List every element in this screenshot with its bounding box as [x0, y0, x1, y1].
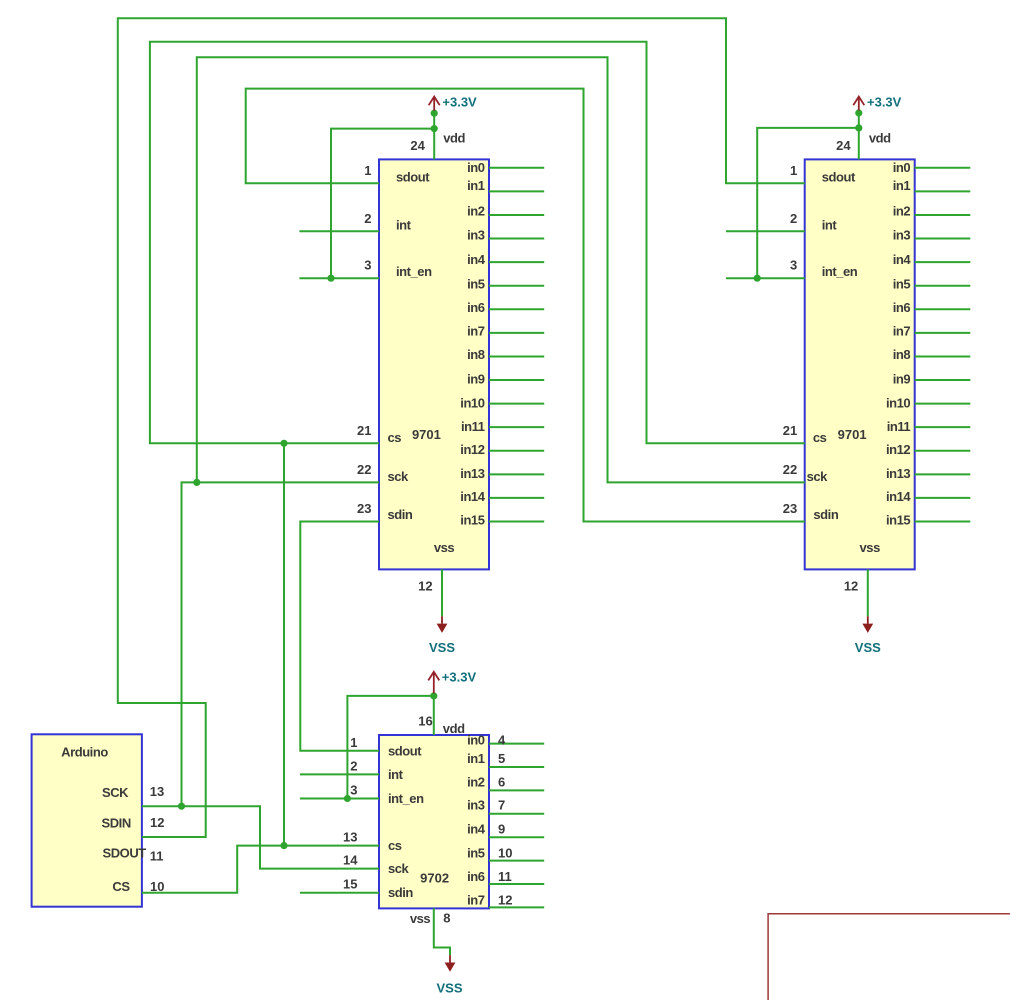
- wire U1 in8 stub: [489, 355, 544, 357]
- svg-text:9: 9: [498, 821, 505, 836]
- svg-text:in12: in12: [460, 442, 484, 457]
- wire U2 in3 stub: [915, 238, 971, 240]
- svg-text:int_en: int_en: [822, 264, 858, 279]
- svg-text:22: 22: [783, 462, 797, 477]
- svg-text:in4: in4: [893, 252, 912, 267]
- wire U1 in6 stub: [489, 308, 544, 310]
- svg-text:in4: in4: [467, 252, 486, 267]
- svg-text:in12: in12: [886, 442, 910, 457]
- svg-text:in14: in14: [460, 489, 485, 504]
- junction U1 +3.3V at power symbol: [431, 110, 438, 117]
- svg-text:int: int: [388, 767, 404, 782]
- svg-text:in9: in9: [467, 372, 485, 387]
- wire U2 vss pin12 down to VSS: [867, 569, 869, 616]
- svg-text:3: 3: [790, 258, 797, 273]
- wire U1 in2 stub: [489, 214, 544, 216]
- svg-text:in15: in15: [886, 513, 910, 528]
- wire U1 in4 stub: [489, 261, 544, 263]
- svg-text:vdd: vdd: [869, 131, 891, 146]
- wire U2 in8 stub: [915, 355, 971, 357]
- svg-text:11: 11: [150, 849, 164, 864]
- power VSS symbol below U3: [445, 955, 456, 972]
- wire U2 vdd pin24 to +3.3V: [858, 113, 860, 159]
- svg-text:in11: in11: [887, 419, 911, 434]
- svg-text:SCK: SCK: [102, 785, 129, 800]
- svg-text:+3.3V: +3.3V: [442, 95, 477, 110]
- wire U2 in6 stub: [915, 308, 971, 310]
- wire net SDIN: Arduino SDIN to U2 sdout (top outer loop): [118, 18, 805, 837]
- svg-text:1: 1: [350, 735, 357, 750]
- wire U3 in0 stub: [489, 743, 544, 745]
- junction U3 cs wire from vertical drop: [280, 842, 287, 849]
- svg-text:in1: in1: [893, 178, 911, 193]
- wire U1 in9 stub: [489, 379, 544, 381]
- svg-text:15: 15: [343, 877, 357, 892]
- svg-text:in7: in7: [467, 324, 485, 339]
- svg-text:vdd: vdd: [443, 721, 465, 736]
- wire U1 in12 stub: [489, 450, 544, 452]
- wire net SCK: U1 sck pin22 left then down to Arduino SCK row: [182, 482, 380, 806]
- wire U3 vdd pin16 to +3.3V: [433, 696, 435, 735]
- svg-text:16: 16: [418, 713, 432, 728]
- wire U2 in1 stub: [915, 190, 971, 192]
- power +3.3V symbol above U2: [853, 97, 864, 111]
- svg-text:cs: cs: [388, 430, 402, 445]
- wire net CS: U3 cs pin13 left then down to Arduino CS pin10: [142, 846, 379, 893]
- svg-text:13: 13: [343, 830, 357, 845]
- wire +3.3V feed to U3 int_en (from vdd junction down): [347, 696, 433, 799]
- svg-text:13: 13: [150, 784, 164, 799]
- svg-text:12: 12: [150, 815, 164, 830]
- svg-text:in8: in8: [893, 347, 911, 362]
- svg-text:CS: CS: [112, 879, 130, 894]
- svg-text:sdin: sdin: [388, 507, 413, 522]
- junction U2 +3.3V at power symbol: [855, 109, 862, 116]
- wire U2 in5 stub: [915, 285, 971, 287]
- svg-text:in0: in0: [467, 733, 485, 748]
- svg-text:2: 2: [350, 758, 357, 773]
- svg-text:in5: in5: [893, 277, 911, 292]
- svg-text:cs: cs: [813, 430, 827, 445]
- wire U3 in7 stub: [489, 906, 544, 908]
- svg-text:21: 21: [357, 423, 371, 438]
- svg-text:in3: in3: [467, 228, 485, 243]
- wire U2 in15 stub: [915, 521, 971, 523]
- svg-text:+3.3V: +3.3V: [442, 670, 477, 685]
- svg-text:cs: cs: [388, 838, 402, 853]
- wire net CS: vertical drop from U1 cs junction to U3 cs line: [283, 443, 285, 845]
- svg-text:sck: sck: [388, 469, 410, 484]
- svg-text:24: 24: [410, 138, 425, 153]
- svg-text:VSS: VSS: [855, 640, 881, 655]
- svg-text:in5: in5: [467, 277, 485, 292]
- svg-text:in2: in2: [467, 204, 485, 219]
- junction Arduino SCK wire: [178, 803, 185, 810]
- svg-text:2: 2: [790, 211, 797, 226]
- wire U2 in4 stub: [915, 261, 971, 263]
- svg-text:in6: in6: [467, 300, 485, 315]
- svg-text:in9: in9: [893, 372, 911, 387]
- svg-text:14: 14: [343, 853, 358, 868]
- svg-text:in3: in3: [893, 228, 911, 243]
- svg-text:SDIN: SDIN: [102, 816, 131, 831]
- svg-text:in1: in1: [467, 178, 485, 193]
- svg-text:vss: vss: [860, 540, 881, 555]
- junction U1 int_en wire: [327, 275, 334, 282]
- svg-text:in7: in7: [893, 324, 911, 339]
- svg-text:10: 10: [498, 846, 512, 861]
- junction U1 cs wire to vertical drop: [280, 440, 287, 447]
- svg-text:10: 10: [150, 879, 164, 894]
- svg-text:24: 24: [836, 138, 851, 153]
- wire U3 in4 stub: [489, 836, 544, 838]
- wire U3 in3 stub: [489, 813, 544, 815]
- power VSS symbol below U2: [862, 616, 873, 633]
- svg-text:22: 22: [357, 462, 371, 477]
- svg-text:in8: in8: [467, 347, 485, 362]
- svg-text:5: 5: [498, 751, 505, 766]
- wire U1 vdd pin24 to +3.3V: [433, 113, 435, 159]
- svg-text:VSS: VSS: [429, 640, 455, 655]
- svg-text:int: int: [396, 217, 412, 232]
- svg-text:sdout: sdout: [822, 169, 856, 184]
- wire net SDOUT1: U1 sdout pin1 up across top to U2 sdin pin23: [246, 89, 805, 522]
- wire net SDIN1: U1 sdin pin23 left, down to U3 sdout pin1: [300, 522, 379, 751]
- wire U1 in3 stub: [489, 238, 544, 240]
- junction SCK riser above U1 sck: [193, 479, 200, 486]
- wire U3 in1 stub: [489, 766, 544, 768]
- wire U1 vss pin12 down to VSS: [441, 569, 443, 616]
- wire net CS: U1 cs pin21 across top to U2 cs pin21: [150, 42, 805, 444]
- power VSS symbol below U1: [437, 616, 448, 633]
- wire U1 in15 stub: [489, 521, 544, 523]
- svg-text:SDOUT: SDOUT: [103, 846, 147, 861]
- op-amp U1 body (9701 left, 24-pin expander): [379, 159, 489, 569]
- svg-text:1: 1: [364, 163, 371, 178]
- svg-text:sdout: sdout: [388, 743, 422, 758]
- wire U1 in13 stub: [489, 473, 544, 475]
- wire U1 int_en pin3 stub: [299, 277, 379, 279]
- svg-text:in13: in13: [886, 466, 910, 481]
- wire U1 int pin2 stub: [299, 230, 379, 232]
- svg-text:3: 3: [364, 258, 371, 273]
- wire U3 vss pin8 down with jog to VSS: [434, 908, 450, 955]
- svg-text:in6: in6: [893, 300, 911, 315]
- svg-text:4: 4: [498, 733, 506, 748]
- svg-text:6: 6: [498, 775, 505, 790]
- svg-text:11: 11: [498, 869, 512, 884]
- svg-text:int_en: int_en: [396, 264, 432, 279]
- svg-text:23: 23: [783, 501, 797, 516]
- svg-text:in5: in5: [467, 846, 485, 861]
- wire U3 in2 stub: [489, 789, 544, 791]
- svg-text:in2: in2: [467, 775, 485, 790]
- svg-text:sck: sck: [807, 469, 829, 484]
- svg-text:9701: 9701: [412, 427, 441, 442]
- power +3.3V symbol above U1: [429, 97, 440, 111]
- svg-text:in6: in6: [467, 869, 485, 884]
- svg-text:in7: in7: [467, 893, 485, 908]
- svg-text:9702: 9702: [420, 870, 449, 885]
- svg-text:sdout: sdout: [396, 169, 430, 184]
- svg-text:in3: in3: [467, 798, 485, 813]
- svg-text:23: 23: [357, 501, 371, 516]
- wire U2 int_en pin3 stub: [726, 277, 805, 279]
- wire U3 in6 stub: [489, 883, 544, 885]
- svg-text:3: 3: [350, 783, 357, 798]
- wire U2 in11 stub: [915, 426, 971, 428]
- svg-text:vss: vss: [410, 911, 431, 926]
- junction U2 vdd / int_en feed: [855, 124, 862, 131]
- wire U1 in7 stub: [489, 332, 544, 334]
- wire U1 in10 stub: [489, 403, 544, 405]
- junction U3 int_en wire: [344, 795, 351, 802]
- svg-text:12: 12: [498, 893, 512, 908]
- wire U2 in7 stub: [915, 332, 971, 334]
- svg-text:int: int: [822, 217, 838, 232]
- svg-text:12: 12: [844, 579, 858, 594]
- junction U1 vdd / int_en feed: [431, 125, 438, 132]
- svg-text:in10: in10: [460, 396, 484, 411]
- junction U3 +3.3V at power symbol: [430, 692, 437, 699]
- wire U1 in0 stub: [489, 167, 544, 169]
- wire U2 in14 stub: [915, 497, 971, 499]
- wire +3.3V feed to U1 int_en (from vdd junction down): [331, 129, 434, 279]
- svg-text:in14: in14: [886, 489, 911, 504]
- wire U2 in12 stub: [915, 450, 971, 452]
- svg-text:in15: in15: [460, 513, 484, 528]
- wire U1 in11 stub: [489, 426, 544, 428]
- wire U2 int pin2 stub: [726, 230, 805, 232]
- svg-text:VSS: VSS: [436, 980, 462, 995]
- svg-text:2: 2: [364, 211, 371, 226]
- svg-text:in11: in11: [461, 419, 485, 434]
- junction U2 int_en wire: [754, 275, 761, 282]
- wire U2 in10 stub: [915, 403, 971, 405]
- svg-text:int_en: int_en: [388, 791, 424, 806]
- wire U3 in5 stub: [489, 860, 544, 862]
- wire U1 in1 stub: [489, 190, 544, 192]
- wire U1 in14 stub: [489, 497, 544, 499]
- svg-text:21: 21: [783, 423, 797, 438]
- svg-text:12: 12: [418, 579, 432, 594]
- svg-text:in1: in1: [467, 751, 485, 766]
- svg-text:in2: in2: [893, 204, 911, 219]
- wire net SCK: junction above U1 sck across top to U2 sck pin22: [197, 57, 805, 482]
- wire net SCK: Arduino SCK pin13 right then down to U3 sck pin14: [142, 806, 379, 868]
- wire U3 int pin2 stub: [300, 773, 379, 775]
- wire U2 in2 stub: [915, 214, 971, 216]
- wire U3 int_en pin3 stub: [300, 798, 379, 800]
- svg-text:7: 7: [498, 798, 505, 813]
- svg-text:Arduino: Arduino: [61, 745, 108, 760]
- svg-text:sdin: sdin: [388, 885, 413, 900]
- svg-text:in4: in4: [467, 821, 486, 836]
- wire U2 in13 stub: [915, 473, 971, 475]
- svg-text:vss: vss: [434, 540, 455, 555]
- wire U2 in9 stub: [915, 379, 971, 381]
- Arduino module body: [32, 734, 142, 906]
- op-amp U3 body (9702 16-pin expander): [379, 735, 489, 908]
- svg-text:+3.3V: +3.3V: [867, 95, 902, 110]
- svg-text:9701: 9701: [838, 427, 867, 442]
- svg-text:in10: in10: [886, 396, 910, 411]
- wire U2 in0 stub: [915, 167, 971, 169]
- svg-text:sdin: sdin: [813, 507, 838, 522]
- wire U1 in5 stub: [489, 285, 544, 287]
- svg-text:in0: in0: [893, 160, 911, 175]
- svg-text:sck: sck: [388, 861, 410, 876]
- svg-text:8: 8: [443, 911, 450, 926]
- power +3.3V symbol above U3: [428, 672, 439, 694]
- wire U3 sdin pin15 stub: [300, 892, 379, 894]
- svg-text:vdd: vdd: [443, 131, 465, 146]
- svg-text:in13: in13: [460, 466, 484, 481]
- op-amp U2 body (9701 right, 24-pin expander): [805, 159, 915, 569]
- svg-text:in0: in0: [467, 160, 485, 175]
- svg-text:1: 1: [790, 163, 797, 178]
- wire +3.3V feed to U2 int_en (from vdd junction down): [757, 128, 859, 278]
- hierarchical sheet outline (bottom right): [768, 914, 1010, 1000]
